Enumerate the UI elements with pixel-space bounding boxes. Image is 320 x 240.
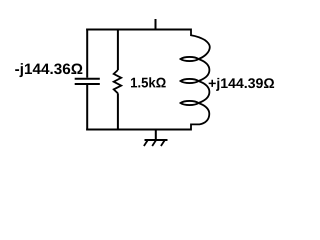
inductor L1 coil xyxy=(181,29,210,131)
resistor R1 value label xyxy=(131,77,166,87)
ground bar xyxy=(145,139,168,141)
wire resistor bottom lead xyxy=(117,93,119,130)
resistor R1 zigzag xyxy=(114,70,122,93)
ground hatch 3 xyxy=(161,141,165,147)
ground hatch 2 xyxy=(152,141,156,147)
wire top horizontal xyxy=(86,29,191,31)
wire left vertical lower xyxy=(86,85,88,131)
node input terminal stub xyxy=(155,19,157,30)
capacitor C1 value label xyxy=(15,63,82,77)
wire left vertical upper xyxy=(86,29,88,78)
capacitor C1 plates xyxy=(75,79,100,84)
wire bottom horizontal xyxy=(86,129,191,131)
wire resistor top lead xyxy=(117,29,119,71)
ground stub xyxy=(155,130,157,141)
ground hatch 1 xyxy=(144,141,148,147)
inductor L1 value label xyxy=(209,78,274,91)
